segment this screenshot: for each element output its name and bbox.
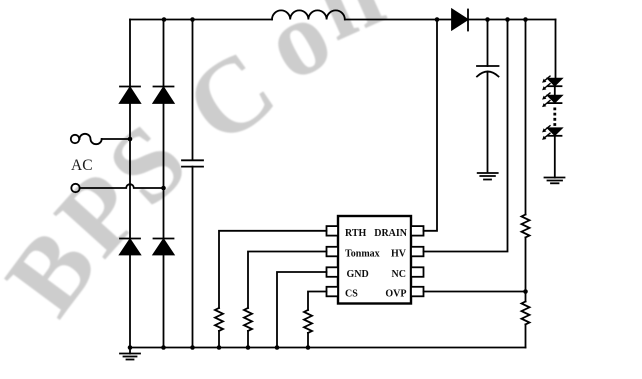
wire R2 to rail (247, 331, 249, 348)
svg-text:Tonmax: Tonmax (345, 249, 380, 260)
diode D5 (452, 10, 468, 31)
svg-text:CS: CS (345, 289, 358, 300)
node ovp top (523, 17, 528, 22)
wire Tonmax (248, 252, 327, 309)
pin OVP box (411, 287, 424, 297)
resistor R5 (522, 302, 530, 325)
dotted wire (553, 108, 556, 127)
node rail 7 (306, 345, 311, 350)
inductor L1 (272, 10, 345, 19)
node rail 6 (275, 345, 280, 350)
node ac1 (128, 137, 133, 142)
wire top rail left (130, 19, 272, 21)
node drain top (435, 17, 440, 22)
ground (120, 348, 140, 360)
node rail 1 (128, 345, 133, 350)
node top cap (190, 17, 195, 22)
node hv top (505, 17, 510, 22)
wire J2 to bridge with hop (80, 184, 164, 188)
LED D8 (542, 126, 561, 140)
wire OVP (424, 291, 526, 293)
node ac2 (161, 186, 166, 191)
fuse F1 (80, 134, 102, 144)
pin RTH box (327, 226, 339, 236)
wire bridge left leg (129, 20, 131, 348)
wire GND pin to rail (277, 272, 327, 348)
pin Tonmax box (327, 247, 339, 256)
wire top rail right (468, 19, 556, 21)
pin labels (345, 228, 408, 300)
wire DRAIN (424, 20, 438, 231)
wire bottom rail (130, 347, 526, 349)
resistor R4 (522, 215, 530, 238)
node top bridge right (162, 17, 167, 22)
LED D6 (542, 76, 561, 90)
wire LED string top (555, 20, 557, 79)
svg-text:GND: GND (347, 269, 369, 280)
resistor R2 (244, 308, 252, 331)
terminal J1 (71, 135, 79, 143)
wire top rail mid (345, 19, 452, 21)
LED D7 (542, 93, 561, 107)
pin HV box (411, 247, 424, 256)
pin NC box (411, 267, 424, 277)
wire R4 to OVP node (525, 237, 527, 291)
node cap2 top (485, 17, 490, 22)
diode D4 (154, 239, 174, 255)
wire bridge right leg (163, 20, 165, 348)
ground (545, 178, 565, 184)
ground (478, 173, 498, 180)
wire HV (424, 20, 508, 252)
svg-text:AC: AC (71, 157, 93, 174)
wire R1 to rail (218, 331, 220, 348)
wire CS (308, 292, 327, 311)
svg-text:DRAIN: DRAIN (374, 228, 408, 239)
pin DRAIN box (411, 226, 424, 236)
wire J1 to bridge (102, 138, 130, 140)
IC U1 (338, 216, 411, 304)
pin GND box (327, 267, 339, 277)
node rail 2 (161, 345, 166, 350)
wire R3 to rail (307, 333, 309, 348)
diode D2 (154, 87, 174, 104)
node rail 4 (217, 345, 222, 350)
terminal J2 (71, 184, 79, 192)
resistor R3 (304, 310, 312, 333)
pin CS box (327, 287, 339, 297)
svg-text:RTH: RTH (345, 228, 367, 239)
node rail 3 (190, 345, 195, 350)
svg-text:HV: HV (391, 249, 407, 260)
diode D1 (120, 87, 140, 104)
svg-text:NC: NC (392, 269, 406, 280)
wire R5 to rail (525, 324, 527, 347)
capacitor C1 (182, 20, 203, 348)
capacitor C2 (477, 20, 499, 172)
svg-text:OVP: OVP (385, 289, 406, 300)
resistor R1 (215, 308, 223, 331)
wire LED3 to ground (554, 136, 556, 178)
node ovp (523, 289, 528, 294)
wire OVP node down (525, 292, 527, 302)
wire LED1 to LED2 (554, 86, 556, 95)
wire OVP branch top (525, 20, 527, 215)
label AC (71, 157, 93, 174)
wire RTH (219, 231, 327, 308)
diode D3 (120, 239, 140, 255)
node rail 5 (246, 345, 251, 350)
